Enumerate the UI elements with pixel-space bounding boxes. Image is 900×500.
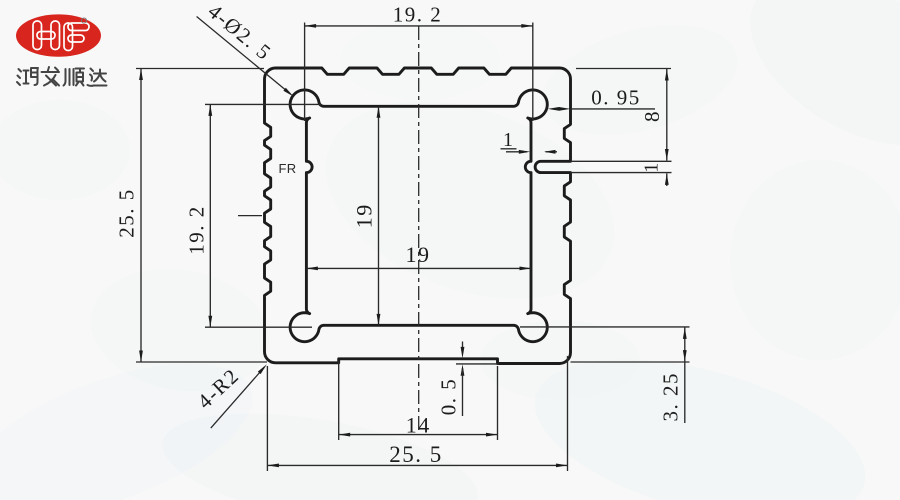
dimension 0.5 recess	[456, 363, 499, 365]
dimension 19 vertical	[378, 106, 380, 325]
svg-text:FR: FR	[279, 161, 297, 176]
svg-text:19: 19	[352, 203, 377, 228]
svg-text:14: 14	[406, 413, 431, 438]
logo (R) mark	[81, 18, 86, 23]
dimension 3.25	[571, 361, 690, 363]
profile inner cavity with 4 screw bosses	[290, 90, 547, 342]
svg-text:8: 8	[640, 110, 664, 122]
faint blue watermark	[0, 332, 271, 500]
svg-text:19. 2: 19. 2	[185, 205, 209, 255]
horizontal centerline stub	[238, 215, 262, 217]
label 4-dia2.5 with leader	[197, 17, 291, 95]
svg-text:1: 1	[503, 129, 513, 151]
dimension 1 slot width	[571, 160, 672, 162]
svg-text:25. 5: 25. 5	[115, 188, 139, 238]
svg-text:19: 19	[406, 242, 431, 267]
dimension 25.5 left	[136, 68, 264, 70]
logo HF letters	[33, 21, 89, 51]
svg-text:3. 25: 3. 25	[659, 372, 683, 422]
dimension 19.2 top	[305, 25, 533, 27]
dimension 25.5 bottom	[266, 366, 268, 471]
hole center crosshairs / extension lines	[304, 23, 306, 122]
svg-text:25. 5: 25. 5	[389, 442, 443, 467]
svg-text:0. 95: 0. 95	[591, 86, 641, 110]
dimension 14 bottom	[338, 361, 340, 440]
dimension 0.95	[571, 108, 656, 110]
vertical dashed centerline	[418, 26, 420, 432]
dimension 19 horizontal	[306, 267, 531, 269]
svg-text:1: 1	[641, 163, 663, 173]
logo chinese text	[17, 67, 107, 86]
svg-text:0. 5: 0. 5	[437, 378, 461, 416]
svg-text:19. 2: 19. 2	[393, 3, 443, 27]
profile outer outline	[265, 68, 571, 364]
dimension 19.2 left	[209, 104, 211, 327]
label 4-R2 with leader	[211, 367, 264, 428]
dimension 8 right	[576, 68, 671, 70]
logo red ellipse	[16, 14, 101, 56]
